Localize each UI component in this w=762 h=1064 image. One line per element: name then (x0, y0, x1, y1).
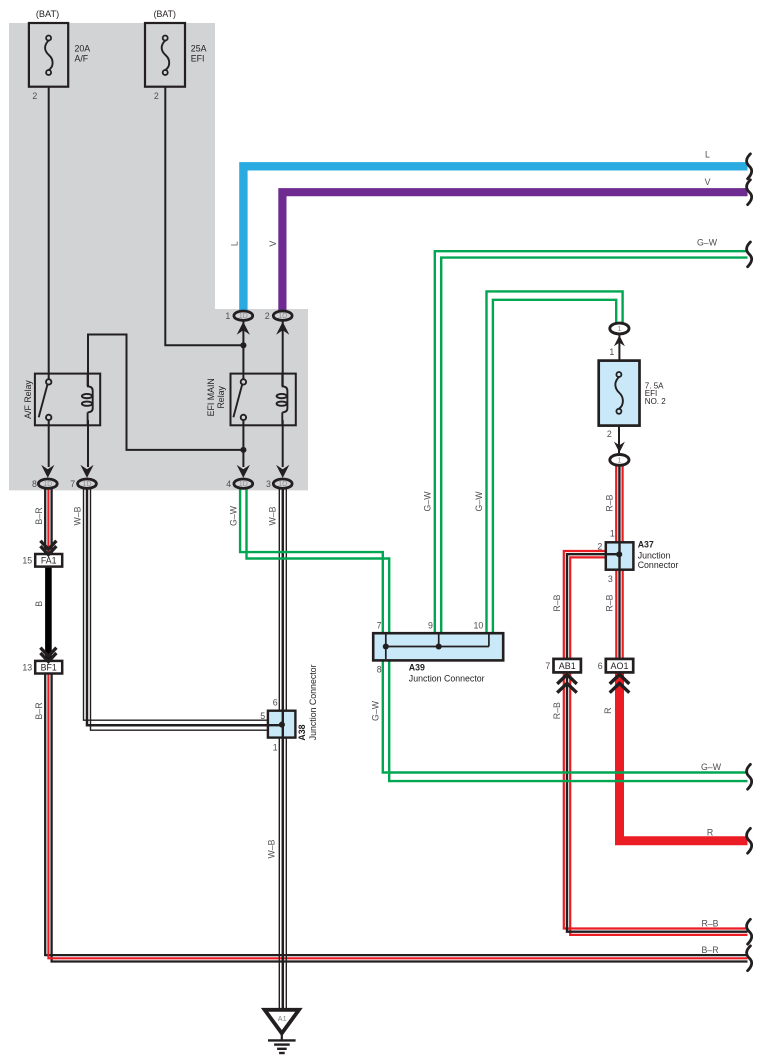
svg-text:1: 1 (610, 529, 615, 539)
svg-text:1D: 1D (239, 479, 248, 488)
svg-text:25A: 25A (191, 44, 207, 54)
svg-text:13: 13 (22, 662, 32, 672)
svg-text:4: 4 (226, 479, 231, 489)
svg-text:20A: 20A (75, 44, 91, 54)
svg-text:A1: A1 (278, 1014, 287, 1023)
svg-text:1: 1 (273, 742, 278, 752)
svg-text:6: 6 (598, 661, 603, 671)
svg-text:A37: A37 (638, 540, 654, 550)
svg-text:R–B: R–B (605, 594, 615, 611)
svg-text:7: 7 (70, 479, 75, 489)
svg-text:R–B: R–B (552, 594, 562, 611)
svg-text:Junction Connector: Junction Connector (409, 674, 485, 684)
svg-text:2: 2 (32, 91, 37, 101)
svg-text:FA1: FA1 (41, 556, 57, 566)
svg-text:L: L (230, 241, 240, 246)
svg-text:AB1: AB1 (559, 661, 576, 671)
svg-text:1: 1 (609, 347, 614, 357)
svg-text:A39: A39 (409, 663, 425, 673)
svg-text:5: 5 (260, 711, 265, 721)
svg-text:Connector: Connector (638, 560, 679, 570)
svg-text:Relay: Relay (216, 385, 226, 408)
svg-text:R: R (707, 827, 713, 837)
svg-text:W–B: W–B (266, 839, 276, 858)
svg-text:EFI MAIN: EFI MAIN (206, 378, 216, 416)
svg-text:BF1: BF1 (41, 662, 57, 672)
svg-text:R–B: R–B (605, 494, 615, 511)
svg-text:Junction Connector: Junction Connector (308, 664, 318, 740)
svg-text:B–R: B–R (34, 702, 44, 719)
svg-text:G–W: G–W (474, 491, 484, 512)
svg-text:1D: 1D (239, 311, 248, 320)
svg-text:R: R (603, 708, 613, 714)
svg-text:W–B: W–B (268, 506, 278, 525)
svg-text:NO. 2: NO. 2 (645, 397, 666, 406)
svg-text:EFI: EFI (191, 53, 205, 63)
svg-text:15: 15 (22, 556, 32, 566)
svg-text:8: 8 (32, 479, 37, 489)
svg-text:1D: 1D (43, 479, 52, 488)
svg-text:(BAT): (BAT) (154, 9, 176, 19)
svg-text:L: L (705, 150, 710, 160)
svg-text:AO1: AO1 (610, 661, 628, 671)
svg-text:(BAT): (BAT) (36, 9, 59, 19)
svg-text:G–W: G–W (701, 762, 722, 772)
svg-text:8: 8 (377, 664, 382, 674)
svg-text:3: 3 (266, 479, 271, 489)
svg-text:A38: A38 (297, 724, 307, 740)
svg-text:1D: 1D (278, 479, 287, 488)
svg-text:B–R: B–R (701, 945, 718, 955)
svg-text:B: B (34, 601, 44, 607)
svg-text:2: 2 (597, 541, 602, 551)
svg-text:2: 2 (265, 311, 270, 321)
svg-text:V: V (268, 241, 278, 247)
svg-text:1D: 1D (82, 479, 91, 488)
svg-text:G–W: G–W (371, 700, 381, 721)
svg-text:R–B: R–B (701, 918, 718, 928)
svg-text:2: 2 (607, 429, 612, 439)
svg-text:9: 9 (428, 620, 433, 630)
svg-text:A/F: A/F (75, 53, 89, 63)
svg-text:6: 6 (273, 697, 278, 707)
svg-text:W–B: W–B (72, 506, 82, 525)
svg-text:7: 7 (377, 620, 382, 630)
svg-text:G–W: G–W (228, 505, 238, 526)
svg-text:1D: 1D (278, 311, 287, 320)
svg-text:1: 1 (225, 311, 230, 321)
svg-text:V: V (705, 177, 711, 187)
svg-text:1: 1 (617, 456, 621, 465)
svg-text:1: 1 (617, 324, 621, 333)
svg-text:A/F Relay: A/F Relay (23, 380, 33, 419)
svg-text:G–W: G–W (423, 491, 433, 512)
svg-text:3: 3 (608, 574, 613, 584)
svg-text:2: 2 (154, 91, 159, 101)
svg-text:R–B: R–B (552, 702, 562, 719)
svg-text:B–R: B–R (34, 507, 44, 524)
svg-text:10: 10 (474, 620, 484, 630)
svg-text:G–W: G–W (697, 238, 718, 248)
svg-text:7: 7 (545, 661, 550, 671)
